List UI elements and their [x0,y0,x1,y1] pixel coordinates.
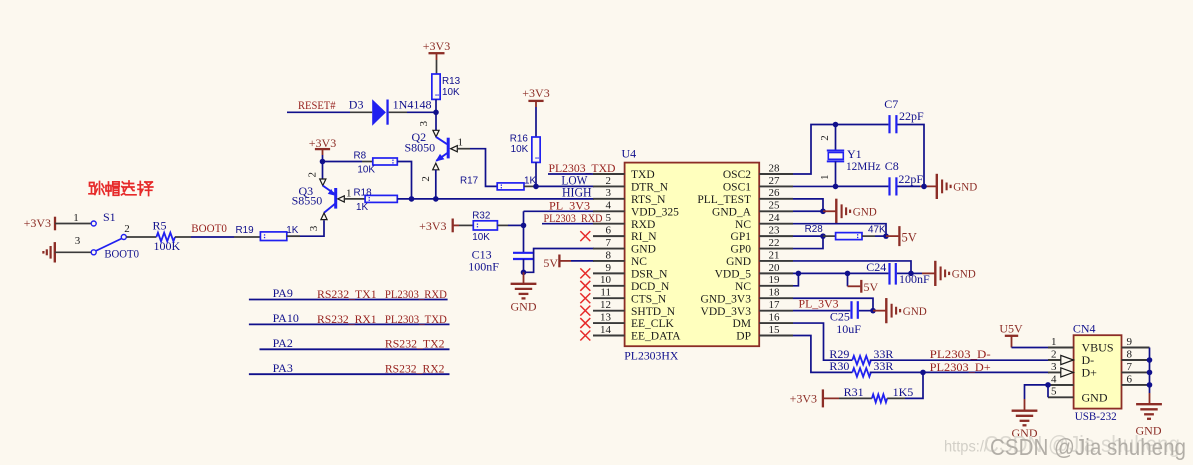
wire 5V to U4 pin 8 [559,260,571,262]
wire R30 to CN4 pin3 net PL2303_D+ [870,371,1049,373]
svg-text:GP1: GP1 [731,231,752,243]
pin arrow Q2 emitter pin 2 [433,163,439,170]
svg-text:+3V3: +3V3 [419,219,446,233]
wire R8 to node on HIGH line [397,162,411,199]
ground symbol below C13 [523,272,525,284]
ground symbol at crystal [936,174,938,199]
svg-text:8: 8 [1127,348,1133,360]
node 5V tap junction [845,271,851,277]
svg-text:5: 5 [606,212,612,224]
U4 pin 24 stub [759,223,793,225]
wire U4 pin23 GP1 to R28 [793,235,823,237]
wire +3V3 to R31 [823,397,839,399]
U4 pin 9 stub [593,272,625,274]
svg-text:RS232_TX1: RS232_TX1 [317,287,377,301]
U4 pin 20 stub [759,272,793,274]
svg-text:R31: R31 [844,385,864,399]
svg-text:7: 7 [1127,361,1133,373]
resistor R5 100K [156,233,175,242]
svg-text:47K: 47K [868,225,886,236]
node shield pin 7 [1147,370,1153,376]
svg-text:27: 27 [769,175,781,187]
svg-text:RXD: RXD [631,219,655,231]
wire CN4 shield pins common [1149,348,1151,385]
pin arrow Q2 collector [433,130,439,137]
no-connect X on U4 pin 13 [580,318,590,328]
svg-text:10: 10 [600,274,612,286]
svg-text:16: 16 [769,311,781,323]
svg-text:R28: R28 [805,224,824,235]
wire node up to pin4 line and down to C13 [523,211,525,225]
svg-text:PLL_TEST: PLL_TEST [697,194,751,206]
U4 pin 3 stub [593,198,625,200]
svg-text:CTS_N: CTS_N [631,293,667,305]
svg-text:GND: GND [631,244,656,256]
capacitor C13 100nF [513,252,534,254]
svg-text:4: 4 [1051,373,1057,385]
resistor R31 1K5 [872,394,887,402]
wire U4 pin28 OSC2 to crystal top [793,125,836,175]
crystal Y1 12MHz [827,150,844,152]
wire U4 pin21 GND to C24 right [793,261,911,273]
wire U4 pin26 PLL_TEST to pin25 GND_A [793,199,823,211]
node GP1/GP0 junction [820,233,826,239]
svg-text:S8550: S8550 [292,194,323,208]
ground symbol at S1 pin 3 [54,242,56,262]
svg-text:GND_3V3: GND_3V3 [701,293,752,305]
U4 pin 2 stub [593,185,625,187]
CN4 pin 2 stub [1048,359,1074,361]
svg-text:2: 2 [1051,348,1057,360]
svg-text:DP: DP [736,331,751,343]
wire PL2303_TXD to U4 pin 1 [548,173,594,175]
svg-text:U5V: U5V [999,321,1023,335]
svg-text:3: 3 [606,187,612,199]
svg-text:BOOT0: BOOT0 [191,221,227,235]
switch S1 contact 1 [91,221,96,226]
resistor R17 1K [497,183,524,190]
node pin25/pin26 junction [820,208,826,214]
resistor R29 33R [852,356,871,365]
wire C24 to ground [897,272,911,274]
svg-text:3: 3 [418,121,430,127]
U4 pin 10 stub [593,285,625,287]
U4 pin 22 stub [759,248,793,250]
svg-text:GND: GND [511,300,537,314]
wire U5V to CN4 pin 1 [1012,347,1050,349]
resistor R28 47K [836,233,862,240]
wire U4 pin20 VDD_5 to C24 [793,272,888,274]
svg-text:25: 25 [769,200,781,212]
switch S1 contact 3 [91,250,96,255]
U4 pin 7 stub [593,248,625,250]
U4 pin 8 stub [593,260,625,262]
svg-text:DSR_N: DSR_N [631,268,668,280]
svg-text:PL2303HX: PL2303HX [624,351,679,363]
svg-text:GP0: GP0 [731,244,752,256]
wire C13 to ground node [523,259,525,272]
node pin4/pin5 junction [1045,382,1051,388]
CN4 pin 1 stub [1048,347,1074,349]
svg-text:PL2303_RXD: PL2303_RXD [385,287,447,301]
wire node to R28 [823,235,836,237]
svg-text:PA10: PA10 [273,311,299,325]
svg-text:RS232_RX1: RS232_RX1 [317,312,377,326]
svg-text:23: 23 [769,225,781,237]
wire D3 to R13/Q2 node [389,111,407,113]
CN4 pin 9 stub [1122,347,1150,349]
svg-text:S8050: S8050 [405,141,436,155]
svg-text:1: 1 [458,136,464,148]
net PA2 / RS232_TX2 wire [260,348,450,350]
U4 pin 1 stub [593,173,625,175]
wire Q2 emitter to HIGH node [435,170,437,199]
svg-text:DTR_N: DTR_N [631,182,669,194]
svg-text:PA2: PA2 [273,336,293,350]
svg-text:9: 9 [1127,336,1133,348]
svg-text:C7: C7 [884,97,898,111]
wire C8 to ground [898,185,921,187]
title text 跳帽选择 (jumper select) [89,181,153,196]
svg-text:PA3: PA3 [273,361,293,375]
U4 pin 25 stub [759,210,793,212]
no-connect X on U4 pin 14 [580,330,590,340]
wire CN4 pin5 up to pin4 [1047,385,1049,397]
svg-text:PL2303_TXD: PL2303_TXD [549,161,616,175]
node C25/pin18 junction [870,308,876,314]
Q3 PNP emitter arrow (solid) [328,189,335,196]
node C13/GND junction [521,270,527,276]
svg-text:HIGH: HIGH [562,185,592,199]
CN4 pin 6 stub [1122,384,1150,386]
capacitor C25 10uF [850,301,852,319]
wire +3V3 node to Q3 emitter pin 2 [322,162,324,180]
svg-text:20: 20 [769,262,781,274]
U4 pin 18 stub [759,297,793,299]
node shield pin 8 [1147,357,1153,363]
node pin19/pin20 junction [796,271,802,277]
wire to ground [823,210,836,212]
wire crystal bottom [835,161,837,186]
svg-text:VDD_325: VDD_325 [631,206,679,218]
svg-text:CN4: CN4 [1073,321,1096,335]
node C24/pin21 junction [908,271,914,277]
svg-text:R18: R18 [354,187,373,198]
svg-text:C24: C24 [866,260,886,274]
svg-text:2: 2 [307,172,319,178]
node Q3-emitter/R8 junction [320,159,326,165]
svg-text:9: 9 [606,262,612,274]
wire crystal top to C7 [836,124,889,126]
diode D3 1N4148 [372,99,386,126]
transistor Q2 S8050 body [447,138,450,159]
svg-text:PA9: PA9 [273,286,293,300]
svg-text:5: 5 [1051,386,1057,398]
wire R17 to LOW node [524,185,536,187]
svg-text:GND: GND [726,256,751,268]
svg-text:OSC2: OSC2 [723,169,751,181]
connector CN4 body [1074,335,1122,408]
node R16/R17 junction on LOW net [533,184,539,190]
wire R19 to Q3 collector [287,220,324,236]
resistor R18 1K [365,195,397,202]
node crystal top junction [833,122,839,128]
wire R18 to U4 pin3 HIGH net [397,198,594,200]
wire S1 to R5 [126,236,156,238]
wire LOW net to U4 pin 2 [536,185,594,187]
svg-text:7: 7 [606,237,612,249]
wire U4 pin7 GND to ground node [524,249,595,273]
svg-text:RS232_TX2: RS232_TX2 [385,337,445,351]
svg-text:10K: 10K [357,165,375,176]
svg-text:8: 8 [606,249,612,261]
U4 pin 6 stub [593,235,625,237]
svg-text:C8: C8 [885,159,899,173]
svg-text:11: 11 [600,287,611,299]
wire R29 to CN4 pin2 net PL2303_D- [870,359,1049,361]
svg-text:13: 13 [600,311,612,323]
no-connect X on U4 pin 6 [580,231,590,241]
wire U4 pin16 DM to R29 [793,323,852,360]
svg-text:6: 6 [606,225,612,237]
wire U4 pin22 GP0 up to R28 node [793,236,823,248]
U4 pin 4 stub [593,210,625,212]
resistor R30 33R [852,368,871,377]
svg-text:1: 1 [1051,336,1057,348]
capacitor C24 100nF [888,263,890,285]
CN4 pin 2 input arrow [1061,355,1074,364]
wire U4 pin19 NC join pin20 [793,273,798,285]
switch S1 blade [96,239,122,252]
svg-text:NC: NC [735,281,751,293]
transistor Q3 S8550 body [323,186,336,213]
net PA9 / RS232_TX1 / PL2303_RXD wire [249,299,448,301]
wire CN4 pin4 to ground [1048,384,1074,386]
wire Q3 base to R18 [344,198,365,200]
power 5V tap below VDD_5 [847,273,849,286]
node C8/C7 junction [921,184,927,190]
resistor R16 10K [532,137,540,162]
ground symbol at C25 [885,298,887,323]
ground symbol at GND_A [835,199,837,224]
svg-text:EE_CLK: EE_CLK [631,318,674,330]
svg-text:2: 2 [124,223,130,235]
svg-text:2: 2 [819,135,831,141]
svg-text:24: 24 [769,212,781,224]
pin arrow Q2 base pin 1 [451,146,458,152]
svg-text:GND: GND [853,205,877,219]
svg-text:RS232_RX2: RS232_RX2 [385,362,445,376]
node R32/PL_3V3/C13 junction [521,223,527,229]
CN4 pin 8 stub [1122,359,1150,361]
svg-text:RESET#: RESET# [298,98,336,112]
svg-text:28: 28 [769,162,781,174]
svg-text:PL_3V3: PL_3V3 [799,297,839,311]
svg-text:2: 2 [420,176,432,182]
svg-text:1: 1 [73,212,79,224]
svg-text:5V: 5V [543,256,558,270]
svg-text:21: 21 [769,249,780,261]
svg-text:SHTD_N: SHTD_N [631,306,676,318]
resistor R32 10K [473,221,497,230]
net PA10 / RS232_RX1 / PL2303_TXD wire [249,323,450,325]
svg-text:OSC1: OSC1 [723,182,751,194]
Q2 NPN emitter arrow (solid) [435,154,444,162]
wire C7 to right vertical [898,125,925,187]
svg-text:22pF: 22pF [898,172,923,186]
svg-text:10uF: 10uF [836,322,861,336]
svg-text:10K: 10K [442,87,460,98]
power 5V at R28 [886,235,898,237]
wire R13 to node [435,99,437,112]
CN4 pin 7 stub [1122,371,1150,373]
svg-text:R5: R5 [153,218,167,232]
U4 pin 23 stub [759,235,793,237]
svg-text:12MHz: 12MHz [846,159,881,173]
svg-text:17: 17 [769,299,781,311]
node shield pin 6 [1147,382,1153,388]
svg-text:D+: D+ [1082,366,1098,380]
power U5V bar [1005,335,1018,337]
svg-text:5V: 5V [902,230,917,244]
svg-text:R19: R19 [236,225,255,236]
svg-text:4: 4 [606,200,612,212]
svg-text:1K5: 1K5 [893,385,914,399]
svg-text:6: 6 [1127,373,1133,385]
svg-text:1K: 1K [286,225,298,236]
svg-text:+3V3: +3V3 [423,39,450,53]
wire R32 to C13 node [497,224,508,226]
svg-text:100nF: 100nF [468,259,499,273]
resistor R19 1K [260,232,286,241]
wire PL_3V3 to U4 pin 4 [524,210,595,212]
svg-text:R30: R30 [829,359,849,373]
U4 pin 16 stub [759,322,793,324]
U4 pin 14 stub [593,334,625,336]
wire U4 pin25 GND_A [793,210,823,212]
svg-text:14: 14 [600,324,612,336]
wire Q2 base to R17 [457,148,470,150]
svg-text:26: 26 [769,187,781,199]
wire U4 pin27 OSC1 to crystal bottom [793,185,836,187]
svg-text:100K: 100K [154,239,181,253]
wire crystal top [835,125,837,150]
svg-text:10K: 10K [472,232,490,243]
svg-text:+3V3: +3V3 [790,391,817,405]
no-connect X on U4 pin 10 [580,281,590,291]
svg-text:GND: GND [1082,391,1108,405]
U4 pin 12 stub [593,310,625,312]
wire R28 to 5V node [862,235,875,237]
svg-text:RI_N: RI_N [631,231,657,243]
svg-text:5V: 5V [864,280,879,294]
U4 pin 21 stub [759,260,793,262]
svg-text:CSDN @Jia shuheng: CSDN @Jia shuheng [990,434,1186,460]
node R8/R18 junction [409,196,415,202]
svg-text:D3: D3 [349,98,364,112]
CN4 pin 5 stub [1048,396,1074,398]
node crystal bottom junction [833,184,839,190]
wire U4 pin17 VDD_3V3 to C25 [793,310,850,312]
pin arrow Q3 base pin 1 [338,196,345,202]
U4 pin 28 stub [759,173,793,175]
svg-text:BOOT0: BOOT0 [104,246,139,260]
wire R16 to LOW node [535,162,537,186]
svg-text:R8: R8 [354,150,367,161]
svg-text:GND_A: GND_A [712,206,752,218]
no-connect X on U4 pin 9 [580,268,590,278]
pin arrow Q3 emitter [320,179,326,186]
svg-text:19: 19 [769,274,781,286]
svg-text:PL2303_D-: PL2303_D- [930,347,991,361]
U4 pin 26 stub [759,198,793,200]
svg-text:22pF: 22pF [899,109,924,123]
svg-text:+3V3: +3V3 [24,216,51,230]
wire crystal bottom to C8 [836,185,889,187]
wire shield to ground [1149,385,1151,393]
svg-text:DM: DM [732,318,751,330]
no-connect X on U4 pin 12 [580,306,590,316]
wire U4 pin18 GND_3V3 to C25 right node [793,298,873,310]
svg-text:R17: R17 [460,175,478,186]
net PA3 / RS232_RX2 wire [249,373,450,375]
svg-text:EE_DATA: EE_DATA [631,331,681,343]
wire +3V3 node to R8 [323,161,363,163]
svg-text:3: 3 [308,225,320,231]
ground symbol at CN4 pin4/5 [1012,410,1038,412]
ground symbol at CN4 shield [1136,403,1162,405]
svg-text:GND: GND [903,304,927,318]
op-amp U4 PL2303HX body [625,163,760,347]
wire C25 to ground [859,310,873,312]
svg-text:R13: R13 [442,76,461,87]
wire U4 pin15 DP to R30 [793,335,852,372]
wire RESET# to D3 [287,111,350,113]
U4 pin 11 stub [593,297,625,299]
svg-text:1K: 1K [356,202,368,213]
svg-text:NC: NC [631,256,647,268]
svg-text:NC: NC [735,219,751,231]
capacitor C8 22pF [888,177,890,195]
pin arrow Q3 collector pin 3 [321,213,327,220]
svg-text:22: 22 [769,237,780,249]
wire +3V3 to R32 [453,224,459,226]
svg-text:GND: GND [952,267,976,281]
node R28/5V junction [883,233,889,239]
CN4 pin 3 stub [1048,371,1074,373]
svg-text:LOW: LOW [561,173,587,187]
U4 pin 27 stub [759,185,793,187]
resistor R13 10K [432,74,440,99]
svg-text:+3V3: +3V3 [309,136,336,150]
U4 pin 13 stub [593,322,625,324]
svg-text:15: 15 [769,324,781,336]
capacitor C7 22pF [888,115,890,133]
svg-text:33R: 33R [873,359,893,373]
svg-text:PL2303_D+: PL2303_D+ [930,360,991,374]
U4 pin 17 stub [759,310,793,312]
svg-text:3: 3 [75,235,81,247]
wire S1 pin3 [55,251,91,253]
svg-text:+3V3: +3V3 [522,86,549,100]
switch S1 common contact 2 [121,235,126,240]
wire R5 to R19 with net BOOT0 [175,236,191,238]
CN4 pin 4 stub [1048,384,1074,386]
svg-text:S1: S1 [103,210,116,224]
svg-text:2: 2 [606,175,612,187]
no-connect X on U4 pin 11 [580,293,590,303]
U4 pin 19 stub [759,285,793,287]
